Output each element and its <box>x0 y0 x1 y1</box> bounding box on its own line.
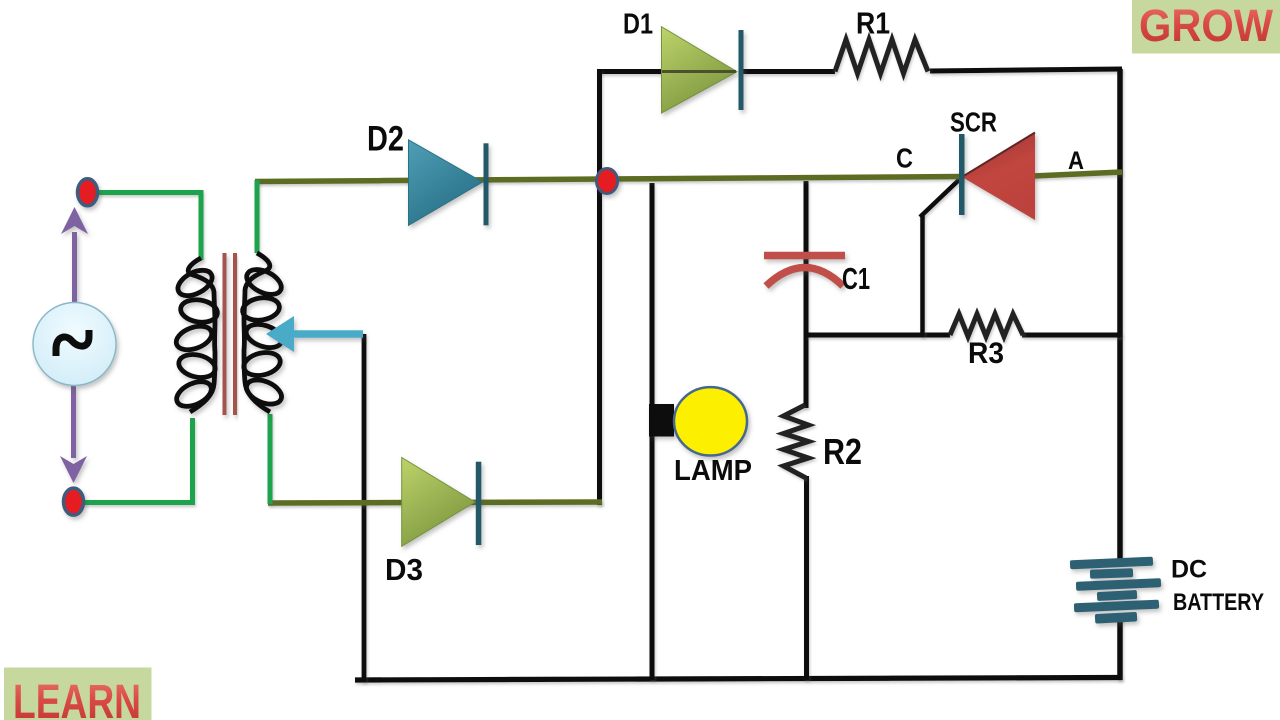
arrow up (purple) <box>61 207 88 303</box>
wire: top horizontal black from R1 to right rail <box>930 69 1122 71</box>
resistor R3 <box>950 314 1023 337</box>
svg-text:BATTERY: BATTERY <box>1173 589 1264 616</box>
svg-text:SCR: SCR <box>950 107 997 138</box>
terminal node top (red oval) <box>78 179 98 206</box>
transformer T1 primary coil <box>173 258 219 412</box>
wire: C1/R2 branch vertical lower <box>804 476 809 680</box>
wire: C1/R2 branch vertical upper <box>804 181 809 408</box>
blue arrow (secondary tap pointer) <box>266 316 363 352</box>
svg-text:LEARN: LEARN <box>13 676 141 720</box>
svg-text:C1: C1 <box>842 261 870 296</box>
wire: green bottom terminal to transformer primary <box>82 418 193 503</box>
resistor R2 <box>784 405 809 478</box>
svg-text:R1: R1 <box>856 6 890 41</box>
wire: right rail bottom (battery to bottom rail) <box>1117 618 1123 680</box>
SCR U1 <box>959 133 1035 221</box>
svg-text:A: A <box>1068 147 1084 175</box>
svg-text:DC: DC <box>1171 556 1207 584</box>
svg-text:LAMP: LAMP <box>674 455 752 487</box>
transformer T1 core <box>225 253 236 415</box>
arrow down (purple) <box>60 386 87 483</box>
battery DC <box>1070 557 1161 624</box>
wire: tap vertical (from blue arrow down to bottom rail) <box>362 334 367 682</box>
wire: SCR gate diagonal <box>920 177 962 217</box>
diode D1 <box>662 27 744 113</box>
svg-text:D1: D1 <box>623 9 653 41</box>
svg-text:R2: R2 <box>823 431 862 472</box>
node A (red junction oval) <box>597 169 618 194</box>
wire: green secondary top <box>255 180 260 253</box>
wire: left vertical black (D1/D3 branch) <box>597 69 602 505</box>
wire: green top terminal to transformer primary <box>93 193 201 261</box>
wire: R3 rail horizontal <box>806 333 950 338</box>
LEARN logo <box>4 668 152 720</box>
terminal node bottom (red oval) <box>64 488 84 515</box>
wire: olive top rail (secondary top to SCR and right rail) <box>255 177 962 182</box>
wire: right rail top (down to battery) <box>1117 69 1123 563</box>
GROW logo <box>1132 0 1280 54</box>
wire: olive bottom rail (secondary bottom through D3) <box>268 502 602 503</box>
svg-text:GROW: GROW <box>1139 0 1273 51</box>
resistor R1 <box>835 40 928 74</box>
svg-text:D2: D2 <box>367 120 404 159</box>
diode D3 <box>402 458 482 547</box>
svg-text:R3: R3 <box>968 337 1004 370</box>
lamp <box>649 387 747 455</box>
transformer T1 secondary coil <box>241 253 285 412</box>
wire: lamp branch vertical <box>650 183 655 680</box>
diode D2 <box>409 140 489 226</box>
wire: top horizontal black from D1 cathode to R1 <box>743 69 835 74</box>
capacitor C1 <box>764 256 845 287</box>
svg-text:C: C <box>896 143 913 174</box>
wire: bottom rail <box>355 678 1122 681</box>
svg-text:D3: D3 <box>385 552 423 587</box>
ac source V1 <box>33 303 116 386</box>
wire: SCR gate vertical <box>920 214 925 337</box>
wire: green secondary bottom <box>268 414 273 504</box>
wire: top horizontal black from corner to D1 <box>597 69 665 74</box>
